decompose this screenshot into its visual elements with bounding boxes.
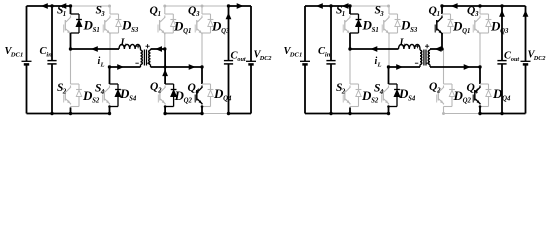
svg-text:S1: S1: [372, 27, 379, 34]
svg-text:1: 1: [63, 11, 66, 18]
svg-text:Q: Q: [467, 82, 475, 94]
svg-text:4: 4: [100, 89, 105, 96]
svg-text:Q4: Q4: [223, 95, 232, 102]
svg-text:DC1: DC1: [289, 51, 302, 58]
svg-text:Q3: Q3: [221, 28, 230, 35]
svg-text:S4: S4: [129, 95, 137, 102]
svg-text:Q4: Q4: [502, 95, 511, 102]
svg-text:Q: Q: [429, 81, 437, 93]
svg-text:out: out: [237, 56, 246, 63]
svg-text:3: 3: [379, 11, 384, 18]
svg-text:Q1: Q1: [462, 28, 470, 35]
svg-text:Q: Q: [150, 5, 158, 17]
svg-text:3: 3: [195, 11, 200, 18]
svg-text:3: 3: [474, 11, 479, 18]
svg-text:L: L: [376, 61, 381, 68]
svg-text:1: 1: [437, 11, 440, 18]
svg-text:in: in: [46, 51, 52, 58]
svg-text:4: 4: [195, 88, 200, 95]
svg-text:2: 2: [341, 88, 346, 95]
svg-text:DC2: DC2: [533, 55, 546, 62]
svg-text:S4: S4: [408, 95, 416, 102]
svg-text:L: L: [120, 38, 127, 49]
svg-text:S3: S3: [131, 27, 139, 34]
svg-text:S1: S1: [93, 27, 100, 34]
svg-text:4: 4: [379, 89, 384, 96]
svg-text:Q1: Q1: [183, 28, 191, 35]
svg-text:Q3: Q3: [500, 28, 509, 35]
svg-text:Q: Q: [429, 5, 437, 17]
svg-text:Q2: Q2: [184, 97, 193, 104]
svg-text:1: 1: [158, 11, 161, 18]
svg-text:L: L: [99, 61, 104, 68]
svg-text:DC1: DC1: [10, 51, 23, 58]
svg-text:1: 1: [342, 11, 345, 18]
svg-text:S2: S2: [92, 97, 100, 104]
svg-text:L: L: [399, 38, 406, 49]
svg-text:2: 2: [62, 88, 67, 95]
svg-text:out: out: [511, 56, 520, 63]
svg-text:DC2: DC2: [259, 55, 272, 62]
svg-text:Q2: Q2: [463, 97, 472, 104]
svg-text:S3: S3: [410, 27, 418, 34]
svg-text:S2: S2: [371, 97, 379, 104]
svg-text:3: 3: [100, 11, 105, 18]
svg-text:Q: Q: [188, 82, 196, 94]
svg-text:2: 2: [157, 87, 162, 94]
svg-text:in: in: [325, 51, 331, 58]
svg-text:2: 2: [436, 87, 441, 94]
svg-text:Q: Q: [150, 81, 158, 93]
svg-text:Q: Q: [467, 5, 475, 17]
svg-text:Q: Q: [188, 5, 196, 17]
svg-text:4: 4: [474, 88, 479, 95]
